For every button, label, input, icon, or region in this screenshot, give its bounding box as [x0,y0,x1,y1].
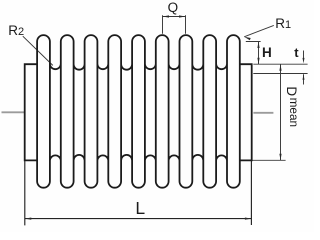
svg-text:mean: mean [287,98,301,128]
svg-text:D: D [284,86,299,96]
svg-text:R2: R2 [8,23,24,38]
svg-text:R1: R1 [275,16,291,31]
svg-text:H: H [262,45,272,60]
svg-text:Q: Q [168,0,179,15]
svg-text:t: t [294,45,299,60]
svg-text:L: L [135,198,145,218]
